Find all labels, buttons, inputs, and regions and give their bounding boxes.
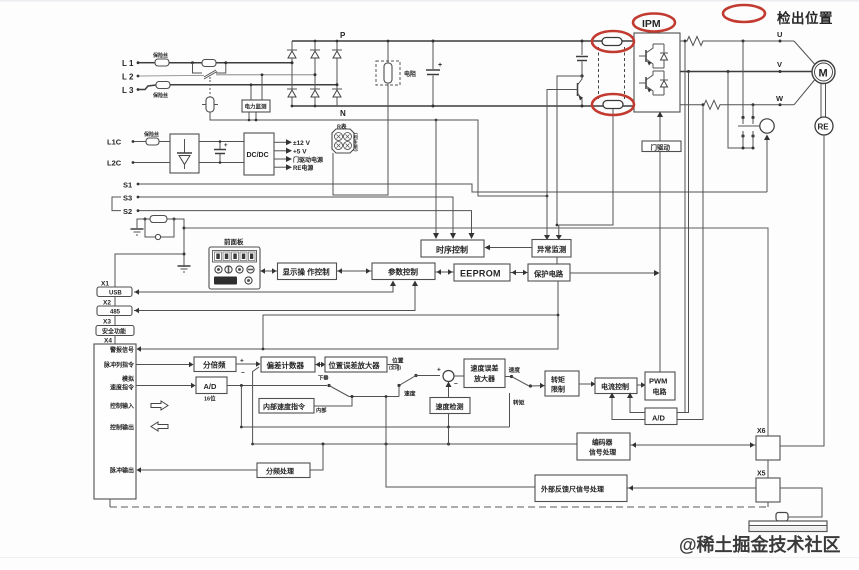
- box current control 电流控制: [595, 378, 637, 394]
- wire gate drive column: [659, 151, 661, 372]
- svg-text:放大器: 放大器: [473, 374, 496, 383]
- svg-text:@稀土掘金技术社区: @稀土掘金技术社区: [679, 534, 841, 555]
- svg-text:参数控制: 参数控制: [388, 267, 418, 277]
- svg-text:V: V: [777, 60, 782, 69]
- svg-text:外部反馈尺信号处理: 外部反馈尺信号处理: [541, 485, 604, 494]
- wire panel to display ctrl: [260, 268, 277, 274]
- svg-text:信号处理: 信号处理: [589, 448, 616, 457]
- svg-text:电阻: 电阻: [404, 70, 416, 78]
- svg-text:脉冲列指令: 脉冲列指令: [103, 361, 135, 369]
- svg-text:IPM: IPM: [642, 18, 661, 30]
- svg-text:速度误差: 速度误差: [471, 364, 499, 373]
- svg-text:显示操 作控制: 显示操 作控制: [283, 267, 331, 277]
- box torque limit 转矩限制: [545, 371, 579, 396]
- box display/operation control 显示操作控制: [278, 263, 337, 280]
- wire dashed inrush sense: [209, 77, 211, 97]
- node U label: [777, 30, 782, 43]
- svg-text:−: −: [454, 381, 458, 388]
- switch speed source: [318, 374, 399, 397]
- wire divider to counter: [236, 358, 261, 377]
- node L1C terminal: [107, 138, 146, 147]
- svg-text:控制输出: 控制输出: [110, 424, 134, 432]
- svg-text:速度: 速度: [509, 366, 521, 374]
- wire abnormal to protect: [556, 257, 558, 264]
- wire encoder fb vertical: [240, 367, 259, 445]
- svg-text:门驱动电源: 门驱动电源: [293, 156, 323, 164]
- svg-text:位置: 位置: [392, 357, 404, 365]
- wire counter to pos amp: [315, 362, 326, 368]
- svg-text:+: +: [240, 358, 244, 365]
- wire divider tap: [310, 444, 323, 470]
- svg-text:X3: X3: [103, 319, 111, 326]
- wire V phase: [680, 71, 812, 73]
- svg-text:X6: X6: [757, 428, 766, 435]
- svg-text:L2C: L2C: [107, 159, 122, 168]
- wire W diagonal to motor: [794, 80, 815, 105]
- current sensor CT2 (capsule on N): [603, 101, 623, 109]
- box deviation counter 偏差计数器: [261, 357, 315, 372]
- box position error amplifier 位置误差放大器: [325, 357, 387, 372]
- svg-text:检出位置: 检出位置: [777, 10, 833, 26]
- node W label: [776, 94, 784, 106]
- svg-text:+: +: [224, 143, 228, 149]
- wire brake contact from V: [727, 70, 754, 148]
- fuse F1: [152, 52, 169, 66]
- wire analog cmd to AD: [136, 383, 196, 389]
- label analog speed command: [110, 375, 135, 392]
- svg-text:安全功能: 安全功能: [102, 328, 126, 336]
- wire speed det to summing: [446, 382, 452, 398]
- svg-text:EEPROM: EEPROM: [460, 269, 501, 279]
- capacitor C-bus electrolytic: [426, 40, 442, 108]
- label position mode: [389, 357, 404, 372]
- svg-text:(全闭): (全闭): [389, 364, 401, 371]
- ground battery left: [131, 219, 146, 235]
- fuse F3: [143, 131, 170, 145]
- svg-text:N: N: [340, 109, 346, 118]
- wire W current sense: [677, 103, 705, 419]
- wire X6 to X5: [767, 460, 769, 478]
- svg-text:RE: RE: [818, 123, 830, 132]
- resistor R-inrush: [202, 97, 218, 112]
- svg-text:(回生用): (回生用): [353, 133, 359, 152]
- wire torque stub: [509, 393, 511, 427]
- wire +-12V output: [274, 139, 311, 147]
- wire AD to current ctrl 1: [627, 393, 645, 413]
- wire sensor output to monitor: [559, 109, 613, 226]
- wire scale box to X5: [627, 485, 756, 491]
- wire gate drive to IPM: [657, 112, 663, 142]
- wire X6 right to encoder column: [780, 445, 824, 447]
- wire U diagonal to motor: [794, 41, 815, 64]
- node S2 terminal: [123, 207, 139, 216]
- box encoder signal processing 编码器信号处理: [577, 433, 630, 460]
- wire brake coil control (S1 path): [764, 135, 770, 193]
- capacitor C-psu: [199, 140, 244, 164]
- wire brake contact from U: [742, 40, 745, 118]
- connector X6: [756, 436, 780, 460]
- node L3 terminal: [122, 86, 139, 95]
- svg-text:+: +: [438, 62, 442, 69]
- wire S3 to timing control: [139, 197, 456, 239]
- svg-text:前面板: 前面板: [224, 237, 244, 246]
- wire RE power output: [274, 164, 313, 172]
- wire monitor taps: [248, 73, 264, 121]
- box gate drive 门驱动: [642, 141, 681, 152]
- wire encoder box to X6: [630, 442, 756, 448]
- wire torque to current: [579, 381, 596, 387]
- ground right: [178, 266, 191, 272]
- wire S1 to brake control: [139, 184, 767, 192]
- svg-text:速度: 速度: [404, 390, 416, 398]
- motor M: [812, 61, 835, 84]
- box PWM circuit: [645, 372, 675, 400]
- box A/D 16bit: [196, 377, 227, 403]
- resistor R-U zigzag: [680, 37, 794, 46]
- wire sensor dashed column: [599, 47, 625, 99]
- svg-text:16位: 16位: [204, 395, 216, 403]
- svg-text:模拟: 模拟: [122, 375, 134, 383]
- wire summing to speed amp: [454, 375, 464, 377]
- svg-text:限制: 限制: [551, 385, 565, 394]
- box timing control 时序控制: [421, 240, 484, 257]
- box abnormal monitor 异常监测: [532, 240, 571, 258]
- rectifier bridge leg 2: [310, 40, 320, 108]
- box DC/DC converter: [244, 133, 274, 175]
- box speed detect 速度检测: [430, 398, 470, 414]
- wire AD to current ctrl 2: [609, 393, 645, 420]
- transistor Q-brake chopper: [570, 76, 584, 108]
- svg-text:M: M: [819, 68, 828, 80]
- box protect circuit 保护电路: [528, 264, 570, 281]
- transistor IGBT lower pair: [639, 71, 668, 95]
- svg-text:分频处理: 分频处理: [266, 467, 294, 476]
- svg-text:S2: S2: [123, 207, 132, 216]
- svg-text:USB: USB: [109, 291, 122, 297]
- wire chopper node sense: [557, 76, 582, 225]
- svg-text:门驱动: 门驱动: [651, 143, 671, 152]
- node L2C terminal: [107, 159, 170, 168]
- wire inrush to timing bus: [210, 112, 436, 120]
- svg-text:转矩: 转矩: [551, 375, 565, 384]
- wire N to timing control: [433, 120, 439, 239]
- svg-text:S1: S1: [123, 181, 132, 190]
- resistor R-regen external (dashed box): [376, 61, 416, 85]
- wire protect to alarm output: [137, 281, 560, 352]
- svg-text:±12 V: ±12 V: [293, 140, 311, 147]
- transistor IGBT upper pair: [639, 44, 668, 68]
- connector X1 USB: [97, 287, 132, 297]
- wire motor shaft: [821, 84, 826, 118]
- wire chopper gate: [547, 90, 570, 239]
- battery BT1 backup: [144, 216, 176, 240]
- wire brake contact from W: [752, 103, 755, 117]
- box A/D current: [645, 408, 677, 425]
- resistor R-chopper: [576, 40, 588, 78]
- wire pulse cmd to divider: [136, 362, 194, 368]
- svg-text:保险丝: 保险丝: [152, 92, 168, 99]
- svg-text:RE电源: RE电源: [293, 164, 313, 172]
- node L2 terminal: [122, 73, 139, 82]
- svg-text:A/D: A/D: [204, 382, 218, 391]
- wire battery bus: [115, 219, 768, 436]
- annotation red ellipse sensor2: [592, 94, 634, 115]
- annotation red ellipse empty: [723, 5, 765, 22]
- box internal speed command 内部速度指令: [259, 399, 327, 415]
- switch position mode: [387, 365, 440, 397]
- wire L3: [170, 84, 337, 86]
- relay coil brake: [760, 119, 774, 133]
- svg-text:异常监测: 异常监测: [537, 245, 566, 254]
- wire X2 to param: [134, 281, 418, 314]
- box power monitor 电力监测: [242, 100, 270, 112]
- wire param to eeprom: [435, 269, 454, 275]
- arrow control output symbol: [151, 422, 168, 431]
- node L1 terminal: [122, 59, 139, 68]
- wire encoder to X6: [780, 135, 824, 446]
- svg-text:保险丝: 保险丝: [143, 131, 159, 138]
- wire abnormal to timing: [485, 245, 533, 251]
- wire current to PWM: [637, 382, 646, 388]
- svg-text:U: U: [777, 30, 782, 39]
- svg-text:L 1: L 1: [122, 59, 134, 68]
- svg-text:下垂: 下垂: [318, 374, 329, 382]
- wire X5 to linear scale: [780, 488, 822, 517]
- wire gate-drive power output: [274, 156, 323, 164]
- wire L1 to bypass: [169, 62, 292, 64]
- box divider 分倍频: [194, 357, 236, 372]
- wire divider to pulse out: [137, 467, 258, 473]
- wire into abnormal monitor: [544, 225, 562, 240]
- linear scale body: [749, 521, 827, 532]
- wire speed det feedback: [241, 414, 509, 429]
- svg-text:L 2: L 2: [122, 73, 134, 82]
- svg-text:−: −: [241, 370, 245, 377]
- summing junction speed: [437, 367, 458, 388]
- annotation red ellipse IPM: [633, 14, 675, 32]
- panel 前面板: [209, 237, 260, 289]
- svg-text:电力监测: 电力监测: [245, 103, 268, 111]
- resistor R-W zigzag: [680, 100, 794, 109]
- svg-text:P: P: [340, 31, 346, 40]
- wire eeprom to protect: [510, 270, 528, 276]
- current sensor CT1 (capsule on P): [602, 38, 622, 46]
- encoder RE: [815, 117, 833, 135]
- rectifier bridge leg 1: [287, 41, 297, 107]
- svg-text:X5: X5: [757, 471, 766, 478]
- wire monitor bundle corner: [435, 119, 549, 198]
- fuse F2: [139, 82, 170, 100]
- relay contacts dynamic brake: [738, 116, 760, 150]
- wire L2 with switch: [139, 72, 315, 80]
- node N rail: [292, 106, 634, 118]
- svg-text:分倍频: 分倍频: [203, 360, 226, 370]
- svg-text:速度检测: 速度检测: [436, 402, 464, 411]
- box external scale processing 外部反馈尺信号处理: [535, 475, 627, 502]
- svg-text:S3: S3: [123, 194, 132, 203]
- wire X1 to param: [134, 281, 396, 295]
- wire regen resistor path: [333, 40, 389, 195]
- svg-text:485: 485: [110, 310, 121, 316]
- linear scale slider: [776, 513, 788, 522]
- wire U current sense: [677, 40, 687, 413]
- node P rail: [292, 31, 634, 41]
- wire encoder line: [253, 427, 577, 446]
- svg-text:内部: 内部: [316, 406, 327, 414]
- switch speed/torque: [505, 375, 545, 389]
- svg-text:内部速度指令: 内部速度指令: [263, 402, 306, 411]
- box frequency divider 分频处理: [257, 463, 310, 478]
- svg-text:警报信号: 警报信号: [109, 346, 134, 354]
- wire X5 dashed external link: [110, 499, 768, 507]
- wire external scale feedback: [385, 395, 535, 487]
- wire AD output: [227, 384, 327, 387]
- arrow control input symbol: [151, 401, 168, 410]
- svg-text:速度指令: 速度指令: [110, 384, 135, 392]
- wire +5V output: [274, 148, 307, 156]
- op IPM power module box U1: [634, 33, 680, 112]
- box parameter control 参数控制: [372, 263, 435, 280]
- wire protect to gate shutdown: [570, 270, 660, 276]
- svg-text:电路: 电路: [653, 387, 668, 396]
- wire S2 to timing control: [139, 211, 475, 239]
- svg-text:电流控制: 电流控制: [601, 382, 629, 391]
- svg-text:转矩: 转矩: [513, 399, 525, 407]
- svg-text:编码器: 编码器: [592, 438, 613, 447]
- node S3 terminal: [112, 194, 139, 211]
- svg-text:PWM: PWM: [649, 377, 667, 386]
- wire internal speed to switch: [314, 395, 354, 406]
- connector X5: [756, 478, 780, 502]
- svg-text:DC/DC: DC/DC: [247, 152, 269, 159]
- relay contact K1 (inrush bypass): [191, 60, 227, 78]
- svg-text:保险丝: 保险丝: [152, 52, 168, 59]
- wire safety loop: [262, 315, 558, 350]
- memory EEPROM: [454, 264, 510, 281]
- svg-text:保护电路: 保护电路: [533, 270, 564, 279]
- wire display to param: [337, 268, 373, 274]
- svg-text:A/D: A/D: [652, 414, 666, 423]
- box PSU rectifier D1: [170, 134, 199, 173]
- node V label: [777, 60, 782, 73]
- svg-text:控制输入: 控制输入: [110, 402, 134, 410]
- rectifier bridge leg 3: [332, 40, 342, 106]
- wire L1: [139, 62, 155, 64]
- svg-text:+: +: [437, 367, 441, 374]
- svg-text:偏差计数器: 偏差计数器: [267, 360, 305, 370]
- svg-text:位置误差放大器: 位置误差放大器: [329, 361, 381, 370]
- wire V current sense: [685, 70, 690, 413]
- connector X3 safety 安全功能: [96, 326, 134, 336]
- annotation red ellipse sensor1: [592, 31, 634, 52]
- connector R terminal block: [332, 123, 359, 154]
- svg-text:时序控制: 时序控制: [436, 245, 468, 255]
- node S1 terminal: [123, 181, 139, 190]
- svg-text:脉冲输出: 脉冲输出: [109, 467, 134, 475]
- svg-text:L1C: L1C: [107, 138, 122, 147]
- box speed error amplifier 速度误差放大器: [464, 359, 505, 388]
- svg-text:+5 V: +5 V: [293, 149, 307, 156]
- svg-text:L 3: L 3: [122, 86, 134, 95]
- connector X2 485: [97, 306, 132, 316]
- connector X4 I/O box: [94, 344, 136, 499]
- svg-text:W: W: [776, 94, 784, 103]
